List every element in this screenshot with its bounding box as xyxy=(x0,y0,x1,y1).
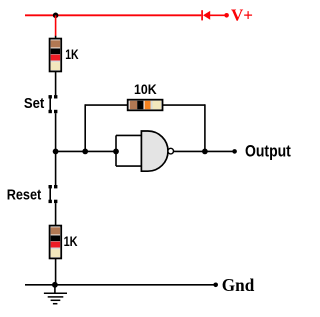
wire R2 to ground rail xyxy=(55,258,57,284)
switch RESET (pushbutton) xyxy=(49,185,58,203)
wire gate input bottom stub xyxy=(116,165,142,167)
resistor R1 1K body xyxy=(50,39,62,72)
diode D1 (red, cathode bar) xyxy=(201,10,203,20)
ground symbol xyxy=(44,285,67,304)
wire gate input top stub xyxy=(116,134,142,136)
svg-text:Set: Set xyxy=(24,96,45,112)
wire feedback top left xyxy=(85,104,128,106)
wire feedback right leg xyxy=(204,104,206,151)
svg-text:10K: 10K xyxy=(134,81,157,97)
svg-text:V+: V+ xyxy=(231,5,253,24)
diode D1 triangle xyxy=(203,11,210,20)
wire feedback left leg xyxy=(84,104,86,151)
svg-text:1K: 1K xyxy=(64,233,78,249)
node junction C (gate input) xyxy=(113,149,119,155)
node junction B (feedback left) xyxy=(82,149,88,155)
wire Set to node row xyxy=(55,113,57,151)
resistor R2 1K body xyxy=(50,226,62,259)
node output terminal dot xyxy=(232,149,237,154)
wire gate input bracket vertical xyxy=(115,135,117,166)
wire node row horizontal xyxy=(56,150,116,152)
svg-text:Reset: Reset xyxy=(7,188,42,204)
node Gnd terminal dot xyxy=(213,283,218,288)
wire feedback top right xyxy=(163,104,205,106)
node junction dot on V+ rail xyxy=(53,13,59,19)
switch SET (pushbutton) xyxy=(49,95,58,113)
node output junction dot xyxy=(202,149,208,155)
wire R1 top lead xyxy=(55,36,57,39)
wire Reset to R2 xyxy=(55,203,57,226)
wire node row to Reset xyxy=(55,151,57,185)
node junction A (main column) xyxy=(53,149,59,155)
wire rail to R1 (red) xyxy=(55,15,57,36)
op-amp U1 NAND gate body xyxy=(141,131,168,171)
resistor R3 10K body xyxy=(128,100,163,111)
wire gate output xyxy=(174,150,235,152)
node V+ terminal dot (red) xyxy=(224,13,229,18)
wire ground rail xyxy=(25,284,216,286)
svg-text:Output: Output xyxy=(245,141,291,160)
op-amp U1 output bubble xyxy=(168,148,174,154)
wire R1 to Set switch xyxy=(55,71,57,95)
svg-text:Gnd: Gnd xyxy=(222,275,255,295)
node ground junction dot xyxy=(52,282,58,288)
svg-text:1K: 1K xyxy=(65,46,78,62)
wire V+ rail (red) xyxy=(25,14,201,16)
wire diode-to-V+ segment (red) xyxy=(210,14,227,16)
